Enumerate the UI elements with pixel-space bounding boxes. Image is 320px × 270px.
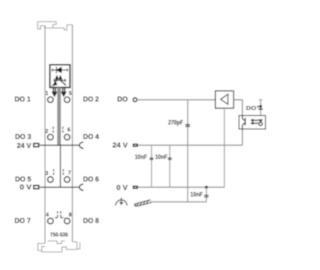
24V rail through module [45, 144, 72, 146]
clamp circle 8 [64, 218, 70, 224]
svg-text:270pF: 270pF [168, 119, 183, 126]
clamp circle 2 [48, 134, 54, 140]
buffer output wire bottom [223, 108, 225, 187]
svg-text:8: 8 [69, 213, 72, 219]
24V plug (left) [34, 144, 39, 147]
opto light arrows [250, 119, 258, 125]
svg-text:DO 7: DO 7 [15, 216, 31, 225]
clamp circle 3 [48, 177, 54, 183]
svg-text:5: 5 [69, 91, 72, 97]
svg-text:4: 4 [46, 213, 49, 219]
clamp circle 1 [48, 97, 54, 103]
clamp circle 4 [48, 218, 54, 224]
ground wire [150, 201, 206, 203]
icon suppressor diode [52, 67, 67, 73]
24V terminal tab [133, 144, 137, 146]
opto transistor glyph [259, 119, 263, 125]
0V rail through module [45, 186, 72, 188]
24V wire to fork [72, 144, 79, 146]
svg-text:24 V: 24 V [17, 141, 32, 150]
capacitor C3 10nF branch [169, 145, 171, 187]
svg-text:DO 3: DO 3 [15, 132, 31, 141]
0V wire to fork [72, 186, 79, 188]
svg-text:7: 7 [68, 170, 71, 176]
svg-text:10nF: 10nF [190, 192, 203, 199]
dashed link clamp 3 [53, 169, 55, 175]
svg-text:10nF: 10nF [135, 154, 148, 161]
24V jumper fork [79, 142, 83, 149]
svg-text:2: 2 [45, 129, 48, 135]
bus-width arrow glyph [258, 105, 262, 110]
svg-text:DO 1: DO 1 [15, 95, 31, 104]
buffer driver U2 [215, 91, 233, 108]
clamp circle 7 [64, 177, 70, 183]
internal data bus ribbon [57, 88, 61, 146]
svg-text:0 V: 0 V [20, 183, 32, 192]
module right edge [71, 25, 73, 242]
svg-text:DO: DO [246, 106, 257, 112]
dashed links clamps 4 and 8 [54, 211, 65, 217]
svg-text:DO 6: DO 6 [83, 175, 99, 184]
junction node [205, 186, 208, 189]
dashed link clamp 7 [62, 169, 64, 175]
dashed link clamp 6 [62, 127, 64, 133]
capacitor C2 10nF branch [151, 145, 153, 187]
module housing bottom profile [38, 241, 80, 252]
0V plug (left) [34, 186, 39, 189]
electronics icon box U1 [50, 65, 70, 88]
buffer output wire right [234, 100, 243, 116]
opto LED [242, 116, 245, 130]
clamp circle 6 [64, 134, 70, 140]
DO x8 output line [259, 99, 262, 101]
svg-text:DO: DO [117, 94, 128, 103]
svg-text:1: 1 [45, 91, 48, 97]
0V jumper fork [79, 184, 83, 191]
svg-text:10nF: 10nF [155, 154, 168, 161]
capacitor C3 plates [168, 158, 172, 159]
bus wire to 0V rail [59, 145, 61, 187]
svg-text:24 V: 24 V [112, 141, 127, 150]
DO input terminal [133, 98, 137, 102]
capacitor C2 plates [150, 158, 154, 159]
clamp circle 5 [64, 97, 70, 103]
svg-text:750-536: 750-536 [50, 233, 68, 239]
capacitor C1 270pF branch [187, 100, 189, 202]
24V rail (schematic) [138, 144, 243, 146]
pin stubs and arrows to clamps 1 and 5 [53, 88, 66, 96]
svg-text:DO 2: DO 2 [83, 95, 99, 104]
capacitor C4 10nF branch [205, 187, 207, 202]
optocoupler box U3 [239, 116, 266, 130]
dashed link clamp 2 [52, 127, 54, 133]
opto supply wire down to 24V rail [241, 129, 243, 145]
module left edge [44, 26, 46, 244]
chassis ground [134, 200, 151, 207]
svg-text:DO 4: DO 4 [83, 132, 100, 141]
capacitor C1 plates [185, 124, 190, 127]
icon output transistors [53, 76, 66, 86]
DO wire [137, 99, 216, 101]
svg-text:DO 8: DO 8 [83, 216, 99, 225]
capacitor C4 plates [204, 195, 208, 196]
module housing top profile [38, 22, 73, 30]
svg-text:6: 6 [67, 128, 70, 134]
24V wire into module [40, 144, 45, 146]
0V terminal tab [133, 186, 137, 188]
0V wire into module [40, 186, 45, 188]
0V rail (schematic) [138, 186, 225, 188]
svg-text:0 V: 0 V [116, 183, 127, 192]
svg-text:3: 3 [45, 171, 48, 177]
earthed-circuit symbol below 0V [116, 198, 128, 206]
